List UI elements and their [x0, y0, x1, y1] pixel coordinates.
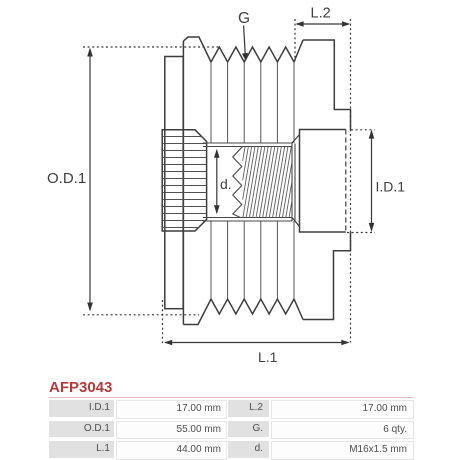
svg-text:G: G — [238, 10, 250, 27]
right flange top profile — [303, 40, 351, 130]
dimension G arrow — [244, 26, 246, 55]
svg-text:O.D.1: O.D.1 — [47, 170, 86, 187]
dimension I.D.1 — [347, 130, 375, 233]
bore wall top lines — [203, 142, 292, 144]
bore right wall — [291, 143, 293, 221]
svg-text:L.1: L.1 — [258, 349, 278, 365]
bore wall bottom lines — [203, 217, 292, 219]
svg-text:I.D.1: I.D.1 — [376, 179, 406, 195]
sleeve inner chamfer top — [292, 135, 300, 144]
bearing sleeve — [300, 130, 346, 233]
spec table row 3 — [49, 441, 114, 458]
spec table row 2 — [49, 421, 114, 438]
hub block outline — [162, 130, 206, 231]
separator line — [49, 397, 413, 398]
dimension d. — [216, 151, 218, 213]
groove valley lines bottom — [211, 221, 294, 299]
dimension O.D.1 line — [83, 47, 220, 315]
left flange bottom profile — [183, 299, 211, 325]
groove valley lines top — [211, 62, 294, 143]
left flange outer edge — [182, 41, 184, 325]
thread zigzag — [233, 147, 243, 218]
svg-text:d.: d. — [220, 176, 232, 192]
sleeve inner chamfer bottom — [292, 218, 300, 227]
left end cap — [165, 57, 183, 309]
dimension L.1 — [163, 300, 349, 343]
sleeve right edge hidden — [345, 130, 347, 233]
right flange bottom profile — [303, 232, 351, 320]
left flange top profile — [183, 37, 211, 62]
spec table row 1 — [49, 400, 114, 417]
thread diagonal hatching — [243, 147, 292, 218]
part number title — [49, 379, 112, 396]
svg-text:L.2: L.2 — [311, 6, 331, 22]
dimension L.2 — [295, 19, 351, 343]
belt ribs top — [211, 40, 303, 62]
hub horizontal hatching — [162, 137, 206, 228]
belt ribs bottom — [211, 299, 303, 320]
O.D.1 arrowheads — [87, 48, 93, 57]
